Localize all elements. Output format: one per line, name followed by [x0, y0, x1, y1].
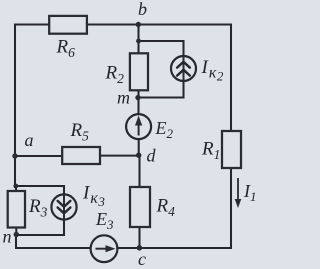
svg-text:c: c	[138, 249, 146, 269]
node b	[136, 0, 147, 27]
junction at parallel top	[136, 39, 141, 44]
node d	[136, 146, 157, 166]
svg-text:a: a	[25, 130, 34, 150]
node a	[12, 130, 33, 159]
wire node b down	[137, 25, 139, 54]
junction R3 top	[13, 184, 18, 189]
wire R3 junction to IK3 top	[16, 186, 64, 195]
node m	[117, 88, 141, 108]
wire R3 bottom to n	[15, 228, 17, 235]
node n	[3, 227, 20, 247]
current source IK3	[51, 183, 105, 220]
wire E2 bottom to d to R4 top	[138, 139, 141, 187]
wire left rail	[14, 25, 16, 187]
svg-text:b: b	[138, 0, 147, 19]
EMF source E2	[126, 114, 173, 141]
current source IK2	[171, 56, 224, 84]
resistor R5	[62, 120, 100, 164]
current arrow I1	[235, 178, 257, 208]
wire right rail lower	[230, 168, 232, 248]
resistor R6	[49, 16, 87, 60]
resistor R2	[105, 53, 149, 90]
resistor R1	[201, 131, 241, 168]
wire parallel top rail to IK2	[139, 41, 184, 56]
wire IK2 bottom to m rail	[139, 81, 184, 98]
wire right rail upper	[230, 25, 232, 132]
wire R2 bottom to m to E2 top	[137, 90, 139, 114]
wire R3 top stub	[15, 186, 17, 191]
wire R4 bottom to c	[138, 227, 140, 248]
wire IK3 bottom to n rail	[16, 220, 64, 236]
EMF source E3	[91, 209, 118, 262]
wire bottom-left corner to E3	[16, 235, 91, 249]
wire top rail b	[15, 23, 231, 25]
wire R5 to d	[100, 155, 139, 157]
resistor R3	[8, 191, 48, 228]
svg-text:d: d	[147, 146, 157, 166]
svg-text:n: n	[3, 227, 12, 247]
node c	[137, 245, 146, 269]
resistor R4	[130, 187, 175, 227]
svg-text:m: m	[117, 88, 130, 108]
wire E3 to c to bottom-right corner	[118, 247, 232, 249]
wire a to R5	[15, 155, 62, 157]
